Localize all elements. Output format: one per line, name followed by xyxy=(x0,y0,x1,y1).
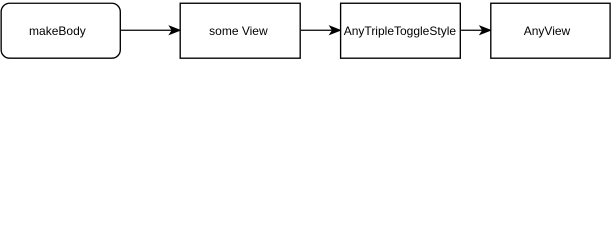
svg-text:some View: some View xyxy=(209,24,268,38)
svg-text:AnyTripleToggleStyle: AnyTripleToggleStyle xyxy=(344,24,457,38)
svg-text:makeBody: makeBody xyxy=(29,24,86,38)
node makeBody (rounded box) xyxy=(1,3,120,58)
svg-text:AnyView: AnyView xyxy=(524,24,571,38)
node AnyView (rectangle) xyxy=(491,3,610,58)
wire arrow from makeBody to some View xyxy=(121,27,180,35)
node AnyTripleToggleStyle (rectangle) xyxy=(341,3,461,58)
node some View (rectangle) xyxy=(180,3,300,58)
wire arrow from some View to AnyTripleToggleStyle xyxy=(301,27,340,35)
wire arrow from AnyTripleToggleStyle to AnyView xyxy=(461,27,490,35)
